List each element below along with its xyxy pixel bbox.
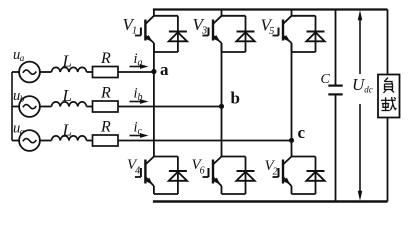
svg-text:b: b [231, 88, 240, 107]
svg-text:L: L [62, 52, 72, 71]
svg-text:R: R [100, 119, 111, 136]
svg-text:c: c [298, 123, 306, 142]
svg-text:R: R [100, 50, 111, 67]
svg-text:L: L [62, 121, 72, 140]
svg-text:L: L [62, 86, 72, 105]
svg-text:R: R [100, 85, 111, 102]
svg-text:a: a [160, 60, 169, 79]
svg-text:C: C [321, 72, 331, 87]
